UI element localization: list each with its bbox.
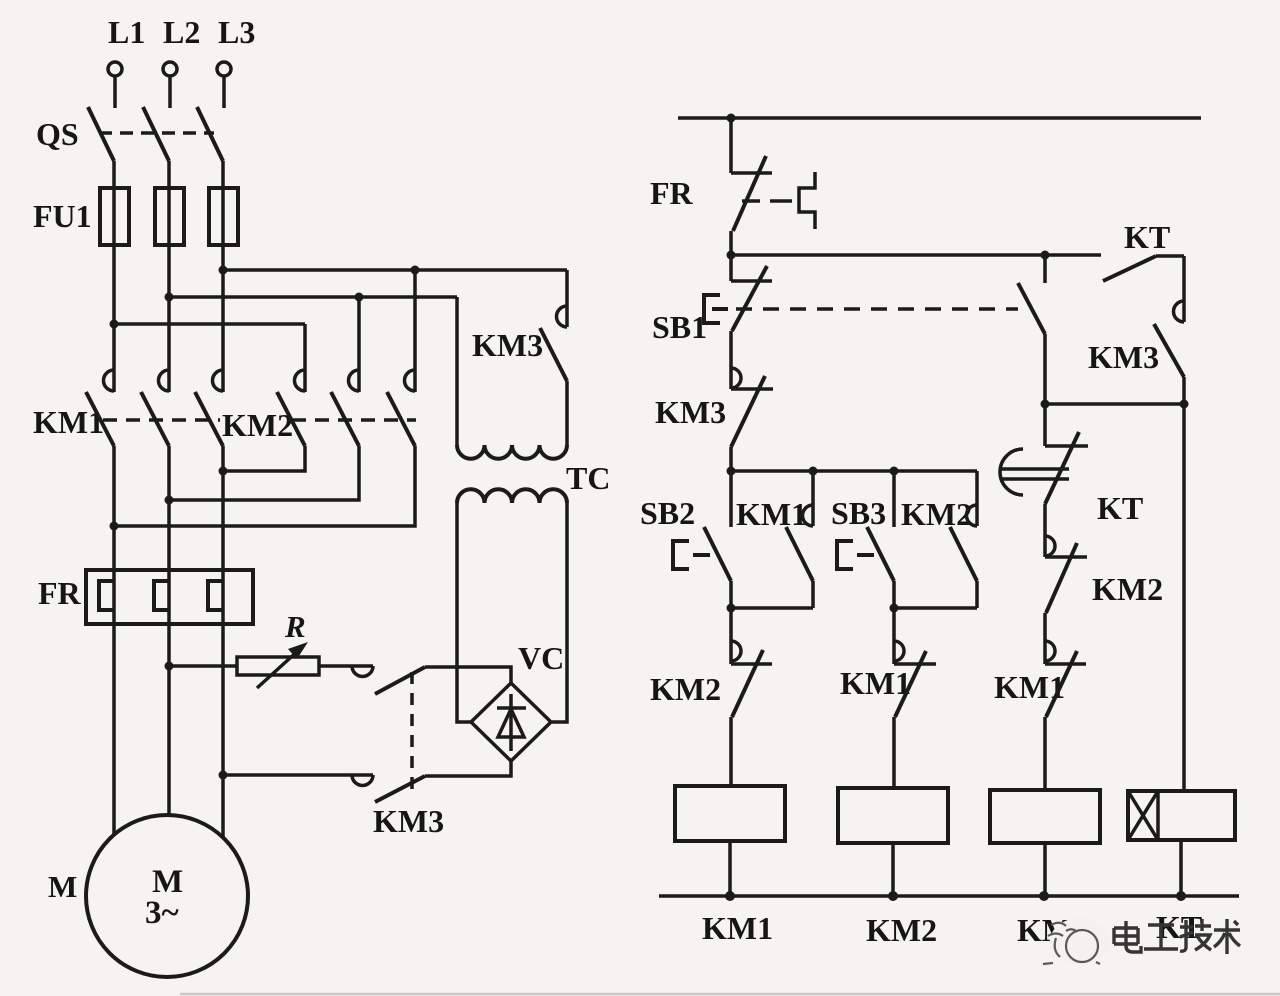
svg-text:L1: L1 — [108, 14, 145, 50]
relay FR heater 1 — [99, 581, 114, 610]
terminal L2 — [163, 62, 177, 108]
contactor KM1 NC in KM3 branch — [1045, 641, 1086, 790]
junction KM2 coil bottom — [888, 891, 898, 901]
contactor KM3 brake linkage dashed — [410, 672, 414, 798]
svg-text:KM3: KM3 — [655, 394, 726, 430]
contactor KM2 aux NO contact — [950, 471, 977, 608]
rectifier VC diode — [497, 694, 526, 751]
wire phase1 inside FR — [112, 570, 116, 624]
coil KT with delay box — [1128, 791, 1235, 896]
contactor KM2 linkage dashed — [292, 418, 416, 422]
wire TC secondary right to rectifier — [552, 503, 567, 722]
junction on phase3 — [219, 266, 228, 275]
contactor KM1 aux NO contact — [786, 471, 813, 608]
junction KT coil branch — [1180, 400, 1189, 409]
wire control top bus — [678, 116, 1201, 120]
junction KM3 coil bottom — [1039, 891, 1049, 901]
wire phase1 through fuse — [112, 161, 116, 392]
junction FR to control bus2 — [727, 251, 736, 260]
junction phase2 crossbar — [165, 496, 174, 505]
transformer TC secondary winding — [457, 489, 567, 503]
junction KM3 coil branch — [1041, 400, 1050, 409]
wire control bottom bus — [659, 894, 1239, 898]
contactor KM2 NC interlock contact — [731, 608, 772, 786]
relay FR heater 2 — [154, 581, 169, 610]
switch QS pole 3 blade — [197, 107, 223, 161]
junction KM1 coil bottom — [725, 891, 735, 901]
svg-text:KM2: KM2 — [866, 912, 937, 948]
svg-text:KM1: KM1 — [736, 496, 807, 532]
svg-text:KM2: KM2 — [901, 496, 972, 532]
pushbutton SB1 NO contact — [1018, 255, 1045, 404]
wire KM3/KT branch join — [1045, 402, 1184, 406]
scan edge bottom — [180, 993, 1280, 996]
relay KT delayed NC contact — [1045, 404, 1088, 557]
wire phase2 tap to resistor — [169, 664, 237, 668]
wire SB3/KM2 join — [894, 606, 977, 610]
junction bus2 to SB1 NO branch — [1041, 251, 1050, 260]
contactor KM2 NC in KM3 branch — [1045, 536, 1087, 664]
wire phase3 through fuse — [221, 161, 225, 392]
switch QS linkage dashed — [99, 131, 214, 135]
junction tap KM2 pole3 feed — [411, 266, 420, 275]
wire KM2 pole3 out to phase1 — [114, 446, 415, 526]
fuse FU1 pole1 — [100, 188, 129, 245]
contactor KM2 pole3 contact — [387, 370, 415, 446]
wire phase3 to FR — [221, 446, 225, 570]
svg-text:KM3: KM3 — [1088, 339, 1159, 375]
svg-text:L2: L2 — [163, 14, 200, 50]
relay FR trip element — [799, 172, 815, 229]
transformer TC primary winding — [457, 445, 567, 459]
svg-text:VC: VC — [518, 640, 564, 676]
wire SB2/KM1 join — [731, 606, 813, 610]
pushbutton SB2 NO contact — [704, 471, 731, 608]
relay FR heater 3 — [208, 581, 223, 610]
svg-text:KM1: KM1 — [702, 910, 773, 946]
resistor R adjust arrow — [257, 642, 308, 688]
contactor KM2 pole1 contact — [277, 370, 305, 446]
junction phase3 braking tap — [219, 771, 228, 780]
svg-text:KM2: KM2 — [1092, 571, 1163, 607]
rectifier VC bridge diamond — [471, 683, 551, 761]
coil KM2 — [838, 788, 948, 896]
junction on phase2 — [165, 293, 174, 302]
wire tap L2 to TC primary — [169, 295, 457, 299]
junction phase3 crossbar — [219, 467, 228, 476]
wire KM2 pole2 out to phase2 — [169, 446, 359, 500]
pushbutton SB1 NC contact — [731, 255, 772, 389]
contactor KM2 pole2 contact — [331, 370, 359, 446]
svg-text:KT: KT — [1124, 219, 1170, 255]
contactor KM1 pole3 contact — [195, 370, 223, 446]
relay KT NO contact — [1103, 256, 1184, 281]
wire KM2 pole1 out to phase3 — [223, 446, 305, 471]
svg-text:FR: FR — [38, 575, 82, 611]
terminal L3 — [217, 62, 231, 108]
svg-text:QS: QS — [36, 116, 79, 152]
fuse FU1 pole2 — [155, 188, 184, 245]
pushbutton SB2 actuator — [673, 541, 710, 569]
svg-text:KM1: KM1 — [840, 665, 911, 701]
wire tap L1 to KM2 pole1 — [114, 322, 305, 326]
svg-text:KT: KT — [1097, 490, 1143, 526]
switch QS pole 2 blade — [143, 107, 169, 161]
svg-text:KM3: KM3 — [373, 803, 444, 839]
contactor KM3 brake contact upper — [352, 666, 425, 694]
junction SB2 branch bottom — [727, 604, 736, 613]
watermark text dian-gong-ji-shu — [1114, 919, 1240, 954]
wire KM3 brake lower to rectifier minus — [425, 761, 511, 776]
wire phase2 through fuse — [167, 161, 171, 392]
watermark logo blob background — [1050, 918, 1110, 964]
svg-text:TC: TC — [566, 460, 610, 496]
wire KM2 pole2 drop — [357, 297, 361, 392]
svg-text:KM3: KM3 — [472, 327, 543, 363]
contactor KM3 NC contact — [731, 368, 773, 471]
wire phase3 tap to KM3 brake contact — [223, 773, 373, 777]
relay FR box — [86, 570, 253, 624]
wire start branch bus — [731, 469, 977, 473]
pushbutton SB1 actuator — [704, 295, 728, 323]
wire control bus2 — [731, 253, 1101, 257]
svg-text:KM2: KM2 — [650, 671, 721, 707]
resistor R body — [237, 657, 319, 675]
terminal L1 — [108, 62, 122, 108]
contactor KM3 brake contact lower — [352, 775, 425, 802]
relay FR NC contact — [731, 118, 772, 255]
pushbutton SB1 linkage dashed — [736, 307, 1018, 311]
svg-text:KM2: KM2 — [222, 407, 293, 443]
wire phase1 to motor — [112, 624, 116, 834]
svg-text:FU1: FU1 — [33, 198, 92, 234]
wire phase1 to FR — [112, 446, 116, 570]
contactor KM1 pole2 contact — [141, 370, 169, 446]
junction tap KM2 pole2 feed — [355, 293, 364, 302]
wire phase2 inside FR — [167, 570, 171, 624]
relay FR linkage dash — [770, 199, 792, 203]
fuse FU1 pole3 — [209, 188, 238, 245]
contactor KM3 power contact — [540, 270, 567, 445]
wire phase2 to motor — [167, 624, 171, 816]
switch QS pole 1 blade — [88, 107, 114, 161]
svg-text:FR: FR — [650, 175, 694, 211]
relay KT delay symbol — [1000, 449, 1069, 495]
svg-text:SB1: SB1 — [652, 309, 707, 345]
wire phase3 to motor — [221, 624, 225, 838]
junction top bus — [727, 114, 736, 123]
wire KM2 pole3 drop — [413, 270, 417, 392]
contactor KM1 NC interlock contact — [894, 608, 936, 788]
contactor KM3 aux NO contact — [1154, 256, 1184, 404]
wire KT coil feed — [1182, 404, 1186, 791]
watermark logo swirl — [1043, 923, 1100, 964]
wire phase3 inside FR — [221, 570, 225, 624]
wire resistor to KM3 brake contact — [319, 664, 373, 668]
svg-text:SB2: SB2 — [640, 495, 695, 531]
junction SB3 branch — [890, 467, 899, 476]
junction on phase1 — [110, 320, 119, 329]
junction SB3 branch bottom — [890, 604, 899, 613]
contactor KM1 pole1 contact — [86, 370, 114, 446]
wire KM2 pole1 drop — [303, 324, 307, 392]
contactor KM1 linkage dashed — [103, 418, 220, 422]
coil KM3 — [990, 790, 1100, 896]
wire tap L3 to KM3 branch — [223, 268, 567, 272]
svg-text:3~: 3~ — [145, 895, 179, 931]
coil KM1 — [675, 786, 785, 896]
svg-text:M: M — [48, 869, 77, 904]
svg-text:SB3: SB3 — [831, 495, 886, 531]
svg-text:L3: L3 — [218, 14, 255, 50]
transformer TC primary feed wire — [455, 297, 459, 445]
pushbutton SB3 actuator — [837, 541, 874, 569]
junction start branch bus — [727, 467, 736, 476]
junction phase1 crossbar — [110, 522, 119, 531]
wire TC secondary left to rectifier — [457, 503, 471, 722]
junction phase2 braking tap — [165, 662, 174, 671]
junction KT coil bottom — [1176, 891, 1186, 901]
wire phase2 to FR — [167, 446, 171, 570]
junction KM1 aux branch — [809, 467, 818, 476]
svg-text:R: R — [284, 609, 306, 644]
wire KM3 brake upper to rectifier plus — [425, 667, 511, 683]
motor M circle — [86, 815, 248, 977]
pushbutton SB3 NO contact — [867, 471, 894, 608]
